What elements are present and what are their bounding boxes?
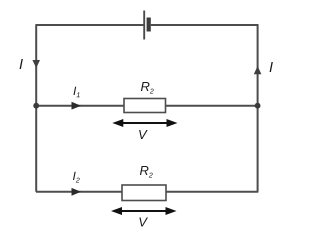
battery B1: short thick plate (negative terminal) — [147, 18, 151, 32]
wire: top-left segment (battery left lead) — [36, 24, 144, 26]
wire: middle branch horizontal — [36, 105, 258, 107]
current arrow I2 (bottom branch, pointing right) — [72, 188, 82, 196]
resistor R2 (top branch) box — [124, 99, 166, 113]
wire: right vertical — [257, 24, 259, 192]
wire: left vertical — [35, 24, 37, 192]
label V (bottom branch) — [139, 218, 148, 227]
voltage arrow V (top branch, double-headed) — [112, 119, 177, 127]
resistor R2 (bottom branch) box — [122, 185, 166, 201]
label V (top branch) — [139, 130, 148, 139]
current arrow I1 (middle branch, pointing right) — [72, 102, 82, 110]
label I2 — [73, 172, 80, 183]
label I (left) — [20, 59, 23, 69]
node: left junction dot — [33, 103, 39, 109]
current arrow I (left side, pointing down) — [32, 60, 40, 68]
label R2 (top branch) — [141, 82, 154, 93]
label I (right) — [270, 62, 273, 72]
current arrow I (right side, pointing up) — [254, 66, 262, 74]
node: right junction dot — [255, 103, 261, 109]
wire: top-right segment (battery right lead) — [151, 24, 258, 26]
label I1 — [73, 87, 79, 97]
label R2 (bottom branch) — [140, 166, 153, 177]
wire: bottom branch horizontal — [36, 191, 258, 193]
voltage arrow V (bottom branch, double-headed) — [111, 207, 177, 215]
battery B1: long plate (positive terminal) — [143, 11, 145, 40]
